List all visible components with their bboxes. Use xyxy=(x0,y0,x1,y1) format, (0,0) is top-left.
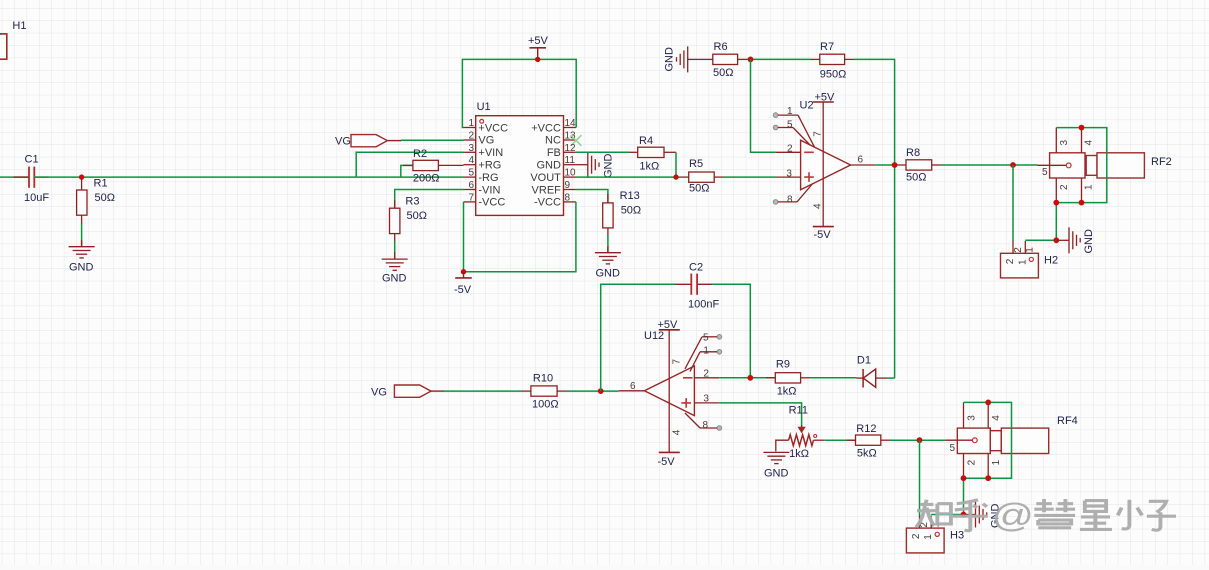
svg-text:1kΩ: 1kΩ xyxy=(789,448,809,460)
svg-text:7: 7 xyxy=(672,359,683,365)
svg-text:2: 2 xyxy=(1013,247,1024,253)
U12 power +5V xyxy=(658,319,680,331)
svg-text:R6: R6 xyxy=(714,41,728,53)
svg-text:12: 12 xyxy=(565,143,577,154)
svg-text:R11: R11 xyxy=(789,405,808,417)
wire R12 to RF4 pin 5 xyxy=(890,439,946,441)
U2 power -5V xyxy=(813,227,834,241)
ground at H2 xyxy=(1056,227,1095,253)
wire R8 to RF2 pin 5 xyxy=(941,164,1038,166)
wire +5V rail to pins 1 and 14 xyxy=(462,59,576,127)
svg-text:R2: R2 xyxy=(413,148,427,160)
svg-text:1: 1 xyxy=(923,534,934,540)
U12 pin 4 xyxy=(669,391,683,452)
resistor R1 xyxy=(77,177,115,224)
svg-text:H1: H1 xyxy=(12,20,26,32)
potentiometer R11 xyxy=(776,405,825,461)
svg-text:-VCC: -VCC xyxy=(478,197,505,209)
U12 power -5V xyxy=(658,452,680,468)
U1 pin 12 xyxy=(547,143,576,159)
U1 pin 2 xyxy=(464,130,495,146)
junction U2 output node xyxy=(892,162,898,168)
RF2 pin 2 xyxy=(1056,178,1070,203)
wire R7 to feedback vertical xyxy=(854,59,895,378)
svg-text:GND: GND xyxy=(664,47,676,72)
svg-text:50Ω: 50Ω xyxy=(689,183,709,195)
U12 pin 3 xyxy=(694,393,719,404)
junction H2 tap xyxy=(1010,162,1016,168)
wire R13 to ground xyxy=(607,235,609,253)
svg-text:3: 3 xyxy=(786,169,792,180)
junction +5V xyxy=(535,57,540,62)
wire U1 pin 7 to -5V xyxy=(463,202,465,272)
svg-text:3: 3 xyxy=(703,393,709,404)
svg-text:5: 5 xyxy=(950,443,956,454)
wire RF4 shield loop xyxy=(964,402,1012,514)
wire U2 out to R8 xyxy=(875,164,897,166)
svg-text:-VCC: -VCC xyxy=(534,197,561,209)
svg-text:5kΩ: 5kΩ xyxy=(857,448,877,460)
svg-text:C2: C2 xyxy=(689,261,703,273)
ground under R1 xyxy=(69,240,95,274)
svg-text:2: 2 xyxy=(1059,184,1070,190)
svg-text:1: 1 xyxy=(1017,259,1028,265)
svg-text:10uF: 10uF xyxy=(24,192,49,204)
power +5V (top of U1) xyxy=(528,35,549,59)
svg-text:GND: GND xyxy=(382,273,407,285)
RF4 pin 5 xyxy=(946,438,978,454)
svg-text:+VCC: +VCC xyxy=(531,122,561,134)
svg-text:-VIN: -VIN xyxy=(478,184,500,196)
wire R5 to U2 pin 3 xyxy=(724,176,776,178)
junction ground node H2 xyxy=(1053,237,1059,243)
junction RF4 top xyxy=(985,400,991,406)
svg-text:@: @ xyxy=(992,497,1034,534)
svg-text:+VCC: +VCC xyxy=(478,122,508,134)
wire input left xyxy=(0,176,28,178)
resistor R6 xyxy=(703,41,747,79)
svg-text:200Ω: 200Ω xyxy=(413,173,440,185)
svg-text:-5V: -5V xyxy=(658,456,676,468)
resistor R8 xyxy=(898,147,942,184)
junction node A xyxy=(79,174,84,179)
svg-text:11: 11 xyxy=(565,155,576,166)
svg-text:R13: R13 xyxy=(620,190,640,202)
svg-text:R12: R12 xyxy=(856,423,876,435)
svg-text:4: 4 xyxy=(813,203,824,209)
svg-text:2: 2 xyxy=(703,368,709,379)
svg-text:R10: R10 xyxy=(533,373,553,385)
wire H3 pin 1 to ground node xyxy=(931,514,963,516)
svg-text:50Ω: 50Ω xyxy=(621,205,641,217)
svg-text:FB: FB xyxy=(547,147,561,159)
wire U12 pin 2 to R9 xyxy=(719,377,775,379)
U2 pin 7 xyxy=(813,102,824,165)
svg-text:3: 3 xyxy=(1059,140,1070,146)
op-amp U12 (mirrored) xyxy=(644,330,694,416)
wire H2 pin 1 to ground node xyxy=(1025,239,1056,241)
svg-text:VOUT: VOUT xyxy=(530,172,561,184)
svg-text:6: 6 xyxy=(858,155,864,166)
junction R12/RF4 node xyxy=(917,437,923,443)
U12 pin 8 xyxy=(685,413,722,431)
svg-text:R9: R9 xyxy=(776,359,790,371)
U2 pin 5 xyxy=(773,120,810,145)
svg-text:+5V: +5V xyxy=(528,35,549,47)
resistor R9 xyxy=(766,359,810,398)
svg-text:U12: U12 xyxy=(644,330,664,342)
svg-text:VG: VG xyxy=(478,135,494,147)
resistor R7 xyxy=(811,41,855,81)
svg-text:1: 1 xyxy=(991,459,1002,465)
svg-text:950Ω: 950Ω xyxy=(820,69,847,81)
wire R2 left leg xyxy=(401,165,413,177)
svg-text:1: 1 xyxy=(787,106,793,117)
svg-text:8: 8 xyxy=(787,194,793,205)
svg-text:7: 7 xyxy=(468,192,474,203)
U2 power +5V xyxy=(813,91,835,103)
svg-text:3: 3 xyxy=(468,143,474,154)
wire C2 right leg xyxy=(712,284,750,378)
svg-text:2: 2 xyxy=(468,130,474,141)
op-amp chip U1 xyxy=(476,101,564,215)
junction RF4 bottom right xyxy=(985,475,991,481)
svg-text:D1: D1 xyxy=(857,354,871,366)
svg-text:1: 1 xyxy=(468,118,474,129)
U1 pin 10 xyxy=(530,168,576,184)
svg-text:50Ω: 50Ω xyxy=(906,172,926,184)
resistor R10 xyxy=(522,373,567,411)
capacitor C2 xyxy=(675,261,719,310)
ground under R13 xyxy=(595,246,621,280)
capacitor C1 xyxy=(14,154,50,205)
svg-text:50Ω: 50Ω xyxy=(407,210,427,222)
svg-text:-RG: -RG xyxy=(478,172,498,184)
junction U12 pin2 node xyxy=(747,375,753,381)
svg-text:VREF: VREF xyxy=(532,184,562,196)
svg-text:2: 2 xyxy=(966,459,977,465)
svg-text:VG: VG xyxy=(371,386,387,398)
svg-text:4: 4 xyxy=(1084,140,1095,146)
svg-text:GND: GND xyxy=(536,160,561,172)
junction U12 output node xyxy=(598,388,604,394)
wire H3 pin 2 to R12 node xyxy=(919,440,921,516)
junction RF2 bottom left xyxy=(1053,200,1059,206)
svg-text:U1: U1 xyxy=(477,101,491,113)
U1 pin 8 xyxy=(534,192,576,208)
U1 pin 7 xyxy=(464,192,506,208)
U12 pin 1 xyxy=(690,346,722,372)
connector RF2 xyxy=(1050,153,1172,178)
resistor R5 xyxy=(680,158,725,195)
junction RF2 bottom right xyxy=(1079,200,1085,206)
svg-text:10: 10 xyxy=(565,168,577,179)
connector H3 xyxy=(906,516,964,553)
U12 pin 6 output xyxy=(619,381,645,392)
wire RF2 shield loop xyxy=(1056,128,1107,241)
resistor R3 xyxy=(390,196,427,243)
wire R1 to ground xyxy=(81,223,83,247)
RF2 pin 5 xyxy=(1038,163,1072,178)
RF4 pin 3 xyxy=(964,402,978,428)
svg-text:14: 14 xyxy=(565,118,577,129)
svg-text:R4: R4 xyxy=(639,135,653,147)
wire VG to R10 xyxy=(444,390,522,392)
svg-text:H3: H3 xyxy=(950,530,964,542)
wire R11 to R12 xyxy=(824,439,855,441)
RF4 pin 4 xyxy=(988,402,1002,428)
U2 pin 6 output xyxy=(851,155,876,166)
ground at R6 xyxy=(664,46,704,72)
svg-text:7: 7 xyxy=(813,131,824,137)
svg-text:C1: C1 xyxy=(25,154,39,166)
wire U1 pin 9 to R13 xyxy=(576,190,608,203)
junction ground node H3 xyxy=(961,512,967,518)
wire C1 to node A xyxy=(34,176,356,178)
U1 pin 3 xyxy=(464,143,504,159)
svg-text:8: 8 xyxy=(565,192,571,203)
U1 pin 4 xyxy=(464,155,502,171)
U1 pin 6 xyxy=(464,180,501,196)
svg-text:1kΩ: 1kΩ xyxy=(777,386,797,398)
wire R3 to ground xyxy=(394,241,396,259)
resistor R12 xyxy=(847,423,891,460)
svg-text:NC: NC xyxy=(545,135,561,147)
svg-text:R3: R3 xyxy=(405,196,419,208)
wire C2 left leg xyxy=(601,284,675,391)
connector RF4 xyxy=(957,415,1077,454)
svg-text:GND: GND xyxy=(1083,229,1095,254)
svg-text:4: 4 xyxy=(991,415,1002,421)
svg-text:50Ω: 50Ω xyxy=(95,192,115,204)
U12 pin 7 xyxy=(669,330,683,391)
ground at U1 pin 11 xyxy=(576,152,615,178)
wire R10 to U12 output xyxy=(567,390,619,392)
U1 pin 13 NC xyxy=(545,130,581,146)
U1 pin 9 xyxy=(532,180,576,196)
svg-text:5: 5 xyxy=(468,168,474,179)
svg-text:2: 2 xyxy=(911,533,922,539)
U2 pin 4 xyxy=(813,165,824,227)
resistor R2 xyxy=(403,148,464,185)
U2 pin 1 xyxy=(773,106,814,147)
svg-text:8: 8 xyxy=(703,420,709,431)
port VG (upper) xyxy=(335,135,401,148)
svg-text:5: 5 xyxy=(1042,167,1048,178)
svg-text:RF4: RF4 xyxy=(1057,415,1078,427)
U2 pin 3 xyxy=(776,169,801,180)
U1 pin 5 xyxy=(464,168,499,184)
wire R9 to D1 xyxy=(810,377,857,379)
svg-text:50Ω: 50Ω xyxy=(713,67,733,79)
op-amp U2 xyxy=(800,100,851,190)
wire D1 to feedback node xyxy=(887,377,895,379)
svg-text:1: 1 xyxy=(1024,247,1035,253)
resistor R13 xyxy=(603,190,641,236)
wire node A up to pin 3 xyxy=(356,152,463,177)
U2 pin 8 xyxy=(773,184,812,205)
svg-text:1kΩ: 1kΩ xyxy=(639,161,659,173)
junction VOUT node xyxy=(673,174,678,179)
watermark 知乎 @彗星小子 xyxy=(916,497,1176,534)
svg-text:9: 9 xyxy=(565,180,571,191)
wire R6 to R7 xyxy=(747,58,811,60)
svg-text:6: 6 xyxy=(468,180,474,191)
svg-text:R7: R7 xyxy=(820,41,834,53)
wire U12 pin 3 to R11 wiper xyxy=(719,403,801,428)
U1 pin 11 xyxy=(536,155,575,171)
svg-text:-5V: -5V xyxy=(454,284,472,296)
svg-text:-5V: -5V xyxy=(814,229,832,241)
svg-text:H2: H2 xyxy=(1044,255,1058,267)
svg-text:+VIN: +VIN xyxy=(478,147,503,159)
svg-text:RF2: RF2 xyxy=(1151,156,1172,168)
U2 pin 2 xyxy=(776,143,801,154)
junction -5V xyxy=(461,269,466,274)
wire U1 pin 6 to R3 xyxy=(395,190,464,209)
junction RF2 top xyxy=(1079,125,1085,131)
U1 pin 14 xyxy=(531,118,576,134)
ground under R3 xyxy=(382,252,408,285)
svg-text:VG: VG xyxy=(335,135,351,147)
svg-text:2: 2 xyxy=(1005,258,1016,264)
wire U1 pin 12 to R4 xyxy=(576,151,629,153)
svg-text:100nF: 100nF xyxy=(688,299,719,311)
svg-text:GND: GND xyxy=(603,154,615,179)
ground at H3 xyxy=(964,502,1002,529)
RF2 pin 4 xyxy=(1082,128,1095,153)
wire U1 pin 8 to -5V xyxy=(464,202,576,272)
connector H1 xyxy=(0,20,26,59)
svg-text:100Ω: 100Ω xyxy=(532,398,559,410)
U12 pin 5 xyxy=(685,332,722,369)
diode D1 xyxy=(857,354,888,387)
svg-text:4: 4 xyxy=(672,429,683,435)
junction R6/R7 node xyxy=(748,57,754,63)
wire H2 pin 2 to output node xyxy=(1012,165,1014,241)
svg-text:3: 3 xyxy=(966,415,977,421)
svg-text:5: 5 xyxy=(703,332,709,343)
svg-text:6: 6 xyxy=(630,381,636,392)
junction RF4 bottom left xyxy=(961,475,967,481)
wire R4 down to VOUT node xyxy=(675,152,677,177)
wire U1 pin 10 VOUT to R5 xyxy=(576,176,680,178)
wire VG to U1 pin 2 xyxy=(401,139,464,141)
RF4 pin 1 xyxy=(988,454,1002,479)
svg-text:U2: U2 xyxy=(800,100,814,112)
U12 pin 2 xyxy=(694,368,719,379)
svg-text:1: 1 xyxy=(1084,184,1095,190)
ground under R11 xyxy=(763,452,789,479)
connector H2 xyxy=(1001,241,1059,278)
port VG (lower) xyxy=(371,385,444,398)
RF2 pin 3 xyxy=(1056,128,1070,153)
svg-text:4: 4 xyxy=(468,155,474,166)
svg-text:2: 2 xyxy=(787,143,793,154)
svg-text:+RG: +RG xyxy=(478,160,501,172)
svg-text:GND: GND xyxy=(596,268,621,280)
wire node A to pin 5 xyxy=(356,176,463,178)
svg-text:5: 5 xyxy=(787,120,793,131)
wire node down to U2 pin 2 xyxy=(751,59,777,152)
resistor R4 xyxy=(629,135,676,172)
RF2 pin 1 xyxy=(1082,178,1095,203)
svg-text:GND: GND xyxy=(69,262,94,274)
RF4 pin 2 xyxy=(964,454,978,479)
svg-text:GND: GND xyxy=(764,467,789,479)
U1 pin 1 xyxy=(464,118,509,134)
svg-text:R1: R1 xyxy=(94,178,108,190)
svg-text:1: 1 xyxy=(703,346,709,357)
svg-text:R8: R8 xyxy=(906,147,920,159)
svg-text:R5: R5 xyxy=(689,158,703,170)
power -5V (below U1) xyxy=(454,272,472,296)
